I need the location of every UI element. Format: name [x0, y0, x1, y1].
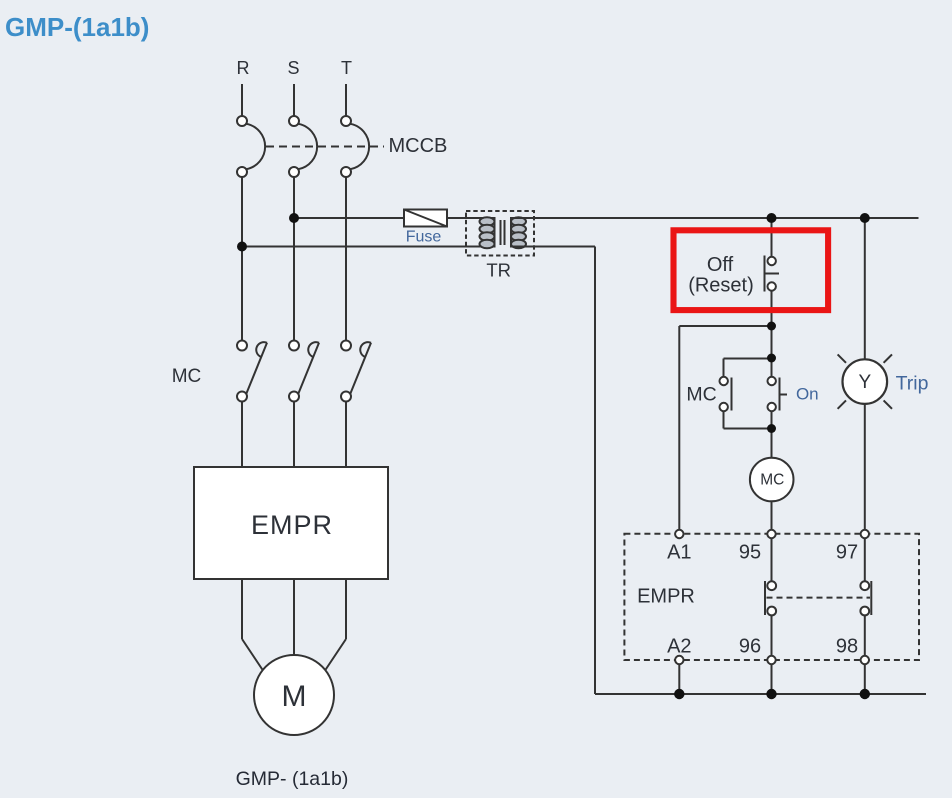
- svg-text:Trip: Trip: [896, 372, 929, 394]
- svg-text:MC: MC: [686, 384, 716, 406]
- svg-text:M: M: [282, 680, 307, 713]
- svg-text:95: 95: [739, 542, 761, 564]
- svg-text:98: 98: [836, 636, 858, 658]
- svg-text:MC: MC: [760, 472, 784, 489]
- svg-text:A1: A1: [667, 542, 691, 564]
- svg-text:T: T: [341, 58, 352, 78]
- svg-text:R: R: [237, 58, 250, 78]
- svg-text:97: 97: [836, 542, 858, 564]
- svg-text:On: On: [796, 385, 819, 404]
- svg-text:GMP- (1a1b): GMP- (1a1b): [236, 768, 349, 790]
- svg-text:Off: Off: [707, 254, 734, 276]
- svg-text:TR: TR: [486, 259, 511, 280]
- svg-text:Y: Y: [858, 372, 871, 393]
- svg-text:EMPR: EMPR: [251, 510, 333, 540]
- svg-text:(Reset): (Reset): [688, 275, 754, 297]
- svg-text:96: 96: [739, 636, 761, 658]
- svg-text:S: S: [287, 58, 299, 78]
- svg-text:MCCB: MCCB: [389, 135, 448, 157]
- svg-text:A2: A2: [667, 636, 691, 658]
- svg-text:Fuse: Fuse: [406, 229, 442, 246]
- svg-text:MC: MC: [172, 366, 202, 387]
- svg-text:EMPR: EMPR: [637, 586, 695, 608]
- svg-text:GMP-(1a1b): GMP-(1a1b): [5, 12, 149, 42]
